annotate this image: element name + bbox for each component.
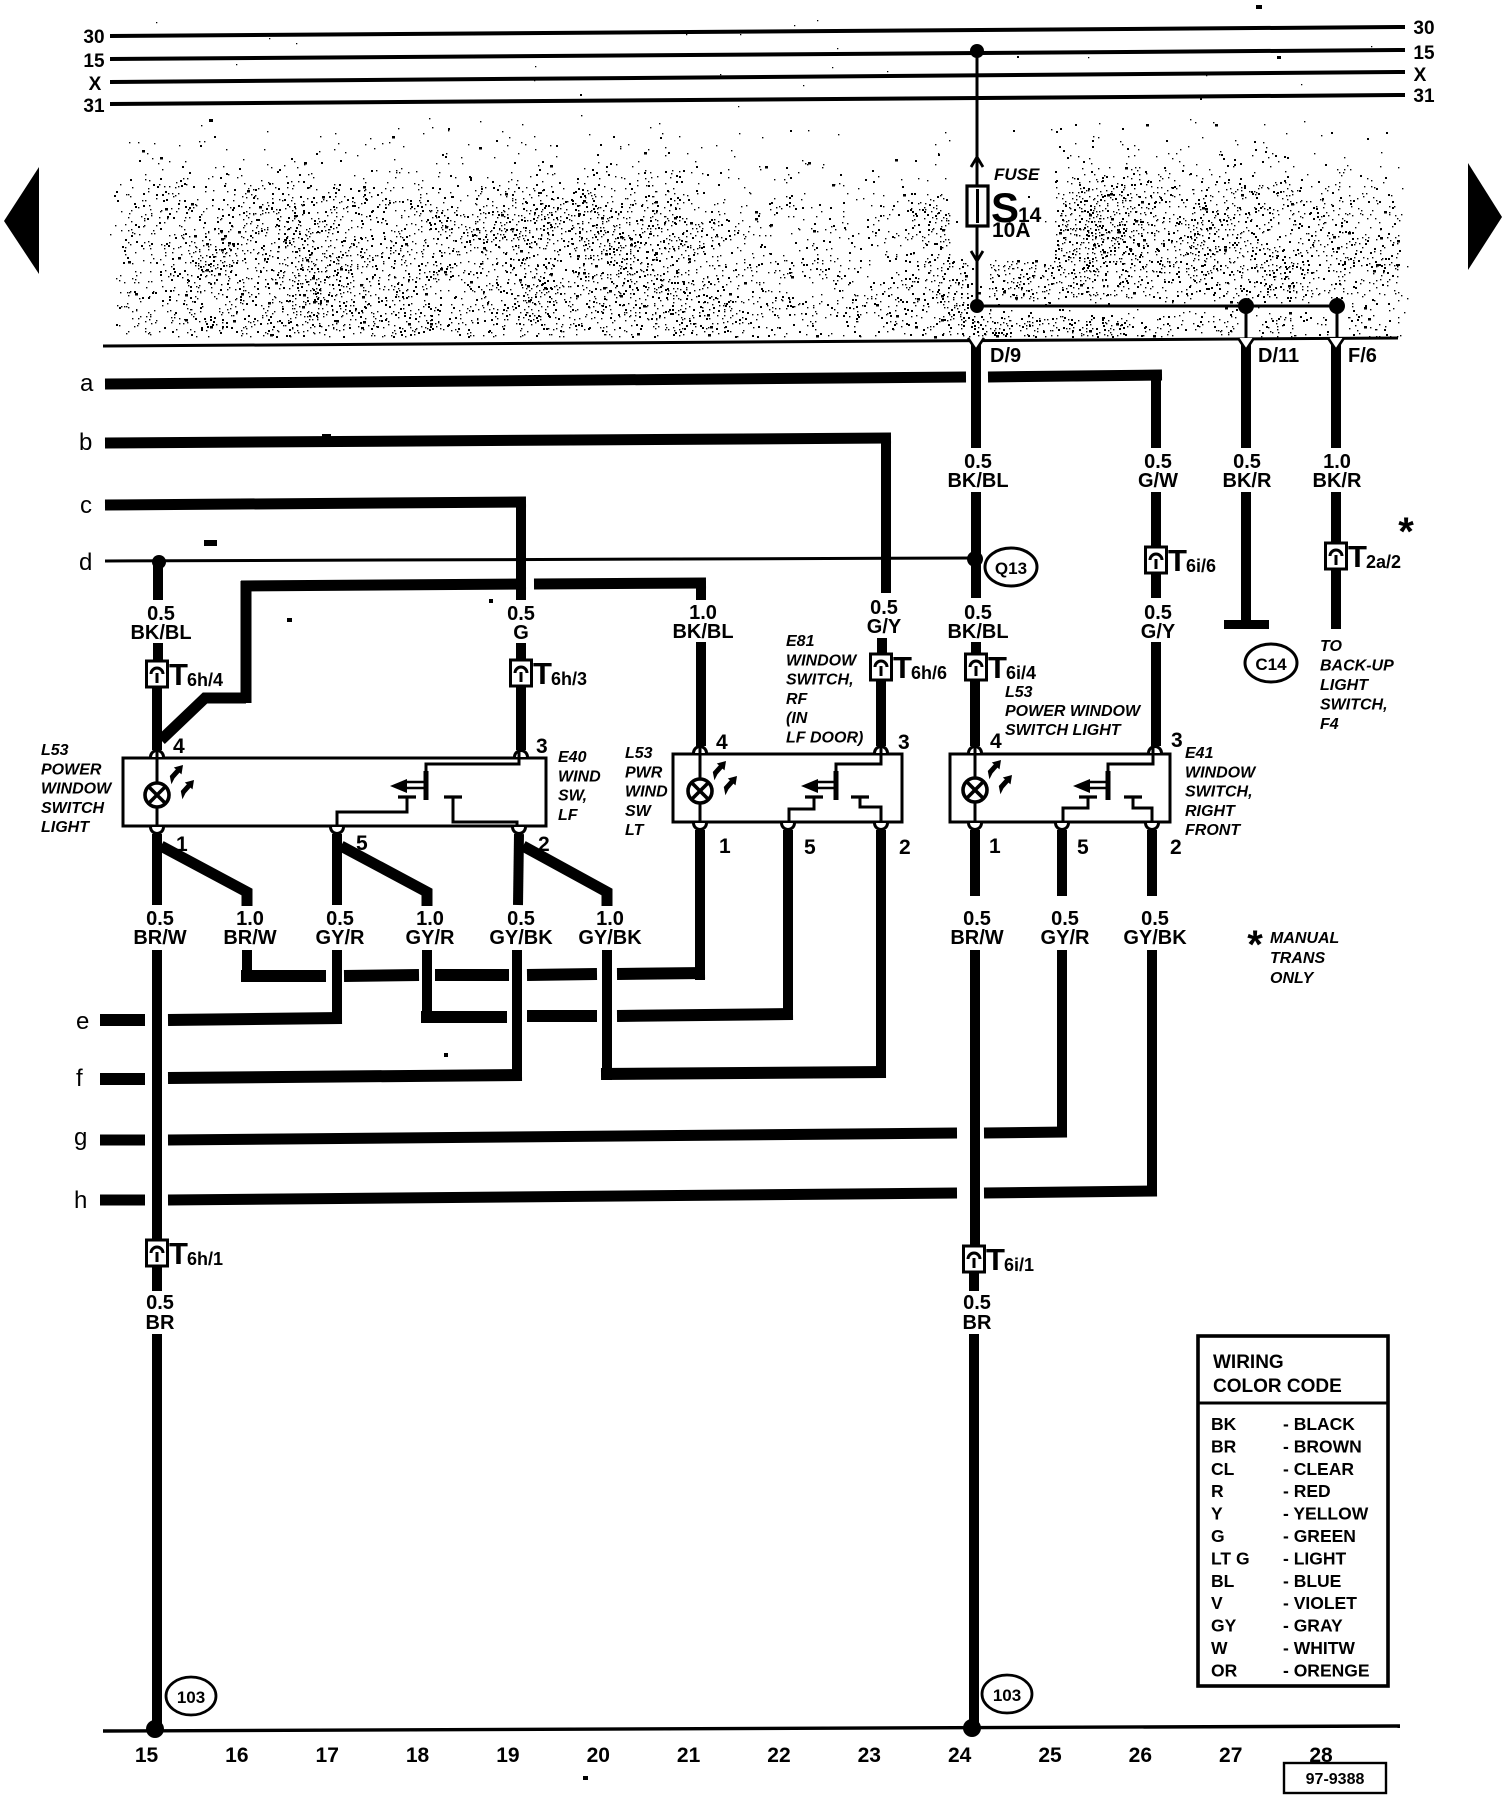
wire a [80,370,1162,397]
switch symbol E41 [1073,746,1153,800]
connector T6h/6 [871,650,948,685]
wire 0.5 GY/R col [332,950,342,1023]
svg-text:G/Y: G/Y [1141,621,1176,643]
connector T6h/1 [147,1236,224,1271]
label 0.5 BR left [146,1292,175,1334]
bottom rail [103,1726,1400,1731]
node Q13 [967,551,983,567]
svg-text:- RED: - RED [1283,1481,1331,1501]
label 0.5 GY/R right [1041,908,1090,949]
svg-text:5: 5 [804,836,816,859]
bus line 30 [83,18,1434,48]
svg-text:4: 4 [716,731,728,754]
wire below T2a/2 [1331,569,1341,629]
svg-text:- LIGHT: - LIGHT [1283,1548,1346,1568]
svg-text:TO: TO [1320,638,1342,655]
terminal E81 pin5 [782,823,817,859]
svg-text:GY/R: GY/R [1041,927,1090,949]
connector T2a/2 [1326,539,1402,574]
wire 1.0 BR/W col [242,950,252,981]
drawing number 97-9388 [1284,1763,1386,1793]
svg-text:c: c [80,492,92,519]
svg-text:*: * [1398,510,1414,554]
terminal E41 pin2 [1146,823,1182,859]
svg-text:16: 16 [225,1744,248,1767]
wire node to D11 F6 [977,305,1337,308]
svg-text:3: 3 [536,735,548,758]
wire E40 pin1 down [152,834,162,905]
wire drop F6 [1336,306,1339,341]
svg-text:0.5: 0.5 [963,1292,991,1314]
ellipse Q13 [985,548,1037,586]
wire D9 to d-node [971,492,981,560]
connector T6h/4 [147,657,224,692]
svg-text:R: R [1211,1481,1224,1501]
svg-text:WIRING: WIRING [1213,1352,1284,1373]
svg-text:D/9: D/9 [990,345,1021,367]
wire drop D11 [1245,306,1248,341]
arrow down from fuse [971,251,983,261]
svg-text:PWR: PWR [625,764,663,781]
label 0.5 G/Y right [1141,602,1176,643]
svg-text:RF: RF [786,691,809,708]
svg-text:SWITCH,: SWITCH, [1320,697,1388,714]
svg-text:6h/4: 6h/4 [187,670,223,690]
svg-text:SW: SW [625,803,653,820]
svg-text:6h/1: 6h/1 [187,1249,223,1269]
wire 1.0 GY/R col [422,950,432,1022]
node track24 [963,1719,981,1737]
contact E41 pin2 [1124,797,1152,826]
contact E81 pin2 [851,797,881,826]
svg-text:- BLUE: - BLUE [1283,1571,1341,1591]
svg-text:ONLY: ONLY [1270,970,1315,987]
svg-text:97-9388: 97-9388 [1306,1771,1365,1788]
wire to T6i/4 [971,642,981,656]
svg-text:X: X [89,74,102,95]
track numbers [135,1744,1333,1767]
label L53 power window switch light E41 [1005,684,1142,739]
fuse S14 [967,186,988,226]
wire b [79,429,891,456]
wire T6h/4 to E40 pin4 [152,687,162,750]
terminal E81 pin3 [875,731,910,754]
wire d-node to label [153,562,163,600]
svg-text:- CLEAR: - CLEAR [1283,1459,1354,1479]
svg-text:TRANS: TRANS [1270,950,1325,967]
ellipse 103 left [166,1677,216,1715]
wire E40 pin2 down [518,834,519,905]
lamp flashes E81 [713,761,737,795]
svg-text:27: 27 [1219,1744,1242,1767]
svg-text:BL: BL [1211,1571,1235,1591]
wire to track15 [152,1334,162,1727]
svg-text:T: T [1168,543,1187,578]
svg-text:SWITCH,: SWITCH, [1185,784,1253,801]
svg-text:b: b [79,429,92,456]
label 0.5 BK/R [1223,451,1272,492]
wire E41 pin2 stub [1147,830,1157,896]
branch diagonal from pin4 [161,698,246,740]
svg-text:18: 18 [406,1744,430,1767]
svg-text:22: 22 [767,1744,790,1767]
svg-text:5: 5 [1077,836,1089,859]
wire d-node down [971,559,981,598]
label 0.5 BK/BL lower [947,602,1008,643]
svg-text:FRONT: FRONT [1185,822,1241,839]
svg-text:T: T [988,650,1007,685]
svg-text:V: V [1211,1593,1223,1613]
svg-text:POWER WINDOW: POWER WINDOW [1005,703,1142,720]
label 1.0 GY/R [406,908,455,949]
arrow up to fuse [971,157,983,167]
svg-text:15: 15 [135,1744,159,1767]
wire G/Y to E41 pin3 [1151,642,1161,746]
wire 1.0 GY/BK col [602,950,612,1080]
svg-text:WIND: WIND [558,768,601,785]
svg-text:POWER: POWER [41,761,102,778]
svg-text:GY: GY [1211,1616,1237,1636]
svg-text:BACK-UP: BACK-UP [1320,658,1394,675]
svg-text:- YELLOW: - YELLOW [1283,1504,1369,1524]
wire c drop G [516,502,526,600]
svg-text:F4: F4 [1320,716,1339,733]
svg-text:- GRAY: - GRAY [1283,1616,1343,1636]
svg-text:C14: C14 [1255,655,1287,674]
svg-text:2a/2: 2a/2 [1366,552,1401,572]
svg-text:GY/R: GY/R [316,927,365,949]
svg-text:2: 2 [1170,836,1182,859]
label L53 pwr wind sw lt [625,745,668,839]
svg-text:- GREEN: - GREEN [1283,1526,1356,1546]
svg-text:BR: BR [963,1312,992,1334]
svg-text:L53: L53 [1005,684,1033,701]
svg-text:a: a [80,370,94,397]
node F6 top [1329,298,1345,314]
svg-text:BR: BR [146,1312,175,1334]
lamp L53 in E81 [688,746,712,826]
svg-text:0.5: 0.5 [146,1292,174,1314]
switch E81 box [673,754,902,822]
svg-text:E40: E40 [558,749,587,766]
label 0.5 GY/R left [316,908,365,949]
svg-text:SW,: SW, [558,788,587,805]
svg-text:LF DOOR): LF DOOR) [786,730,863,747]
label 0.5 BR/W left [133,908,186,949]
svg-text:BK/BL: BK/BL [947,470,1008,492]
branch pin5 diagonal [341,846,427,906]
svg-text:30: 30 [83,27,104,48]
svg-text:4: 4 [173,735,185,758]
label E81 window switch rf [786,633,863,747]
svg-text:L53: L53 [625,745,653,762]
svg-text:21: 21 [677,1744,701,1767]
connector T6h/3 [511,656,588,691]
terminal E41 pin1 [969,823,1002,858]
branch riser [241,581,252,703]
wire D/11 [1238,338,1299,621]
svg-text:Y: Y [1211,1504,1223,1524]
wire E41 pin5 col [1057,950,1067,1136]
label L53 power window switch light [41,742,113,836]
bus line 15 [83,43,1435,72]
svg-text:- VIOLET: - VIOLET [1283,1593,1357,1613]
switch E41 box [950,754,1170,822]
label 1.0 BR/W [223,908,276,949]
svg-text:BK: BK [1211,1414,1237,1434]
svg-text:G: G [513,622,529,644]
svg-text:BK/R: BK/R [1223,470,1272,492]
terminal E81 pin1 [694,823,732,858]
terminal E40 pin4 [151,735,186,758]
fuse label [991,165,1042,242]
svg-text:1: 1 [989,835,1001,858]
wire f [76,1065,886,1092]
svg-text:E41: E41 [1185,745,1214,762]
wire T6h/6 to E81 pin3 [876,680,886,746]
lamp L53 in E41 [963,746,987,826]
lamp L53 in E40 [145,750,169,830]
label 1.0 BK/BL [672,602,733,643]
svg-text:31: 31 [83,96,105,117]
svg-text:BK/R: BK/R [1313,470,1362,492]
svg-text:T: T [533,656,552,691]
wire T6h/3 to E40 pin3 [516,686,526,750]
svg-text:LF: LF [558,807,579,824]
wire D/9 [968,338,1021,448]
star manual trans [1398,510,1414,554]
wire b drop G/Y [881,438,891,593]
wire E81 pin2 down [876,830,886,1078]
label E40 wind sw lf [558,749,601,824]
svg-text:BR: BR [1211,1436,1237,1456]
svg-text:L53: L53 [41,742,69,759]
terminal E40 pin3 [515,735,548,758]
wire E81 pin1 down [695,830,705,980]
connector T6i/1 [964,1242,1035,1277]
wire g [74,1124,1067,1151]
svg-text:GY/BK: GY/BK [1123,927,1187,949]
bus line X [89,65,1427,95]
svg-text:25: 25 [1038,1744,1062,1767]
svg-text:G: G [1211,1526,1225,1546]
svg-text:15: 15 [1413,43,1435,64]
page arrow right [1468,163,1502,270]
label 0.5 BK/BL upper [947,451,1008,492]
wire T6i/4 to E41 pin4 [970,680,980,746]
label 0.5 GY/BK left [489,908,553,949]
bus line 31 [83,86,1435,117]
svg-text:15: 15 [83,51,105,72]
svg-text:OR: OR [1211,1660,1238,1680]
node D9 top [970,299,984,313]
wire G/W to T6i/6 [1151,492,1161,549]
label 0.5 G [507,603,535,644]
wire e [76,1008,793,1035]
svg-text:*: * [1247,923,1263,967]
svg-text:LIGHT: LIGHT [1320,677,1369,694]
svg-text:SWITCH,: SWITCH, [786,672,854,689]
svg-text:T: T [986,1242,1005,1277]
wire 0.5 GY/BK col [512,950,522,1081]
svg-text:SWITCH LIGHT: SWITCH LIGHT [1005,722,1122,739]
wire E40 pin5 down [332,834,342,905]
svg-text:T: T [169,657,188,692]
wire to E81 pin4 [696,642,706,746]
svg-text:BR/W: BR/W [950,927,1003,949]
svg-text:3: 3 [1171,729,1183,752]
label 0.5 BR/W right [950,908,1003,949]
wire to T6h/3 [516,643,526,662]
svg-text:e: e [76,1008,89,1035]
svg-text:6h/6: 6h/6 [911,663,947,683]
wire E41 pin5 stub [1057,830,1067,896]
svg-text:GY/BK: GY/BK [578,927,642,949]
svg-text:3: 3 [898,731,910,754]
contact E40 pin5 [337,797,416,830]
svg-text:BK/BL: BK/BL [130,622,191,644]
lamp flashes E40 [170,765,194,799]
wire E81 pin5 down [783,830,793,1020]
star note [1247,923,1339,987]
end bar D/11 [1224,620,1269,629]
svg-text:f: f [76,1065,83,1092]
svg-text:31: 31 [1413,86,1435,107]
node track15 [146,1720,164,1738]
page arrow left [4,167,39,274]
svg-text:26: 26 [1129,1744,1152,1767]
svg-text:X: X [1414,65,1427,86]
contact E40 pin2 [444,797,517,830]
label E41 window switch right front [1185,745,1257,839]
svg-text:GY/BK: GY/BK [489,927,553,949]
wire T6i/6 down [1151,573,1161,598]
terminal E40 pin1 [151,827,189,856]
svg-text:WIND: WIND [625,784,668,801]
svg-text:19: 19 [496,1744,519,1767]
svg-text:LT: LT [625,822,645,839]
svg-text:g: g [74,1124,87,1151]
svg-text:6i/1: 6i/1 [1004,1255,1034,1275]
svg-text:GY/R: GY/R [406,927,455,949]
branch drop 1.0 BK/BL [696,583,706,600]
svg-text:G/Y: G/Y [867,616,902,638]
connector T6i/6 [1146,543,1217,578]
svg-text:(IN: (IN [786,710,808,727]
label 0.5 GY/BK right [1123,908,1187,949]
terminal E41 pin4 [969,730,1003,753]
branch bar [241,583,706,586]
ellipse C14 [1245,644,1297,682]
label 0.5 G/Y mid [867,597,902,638]
svg-text:103: 103 [993,1686,1021,1705]
svg-text:2: 2 [899,836,911,859]
svg-text:F/6: F/6 [1348,345,1377,367]
bus rail [103,338,1398,346]
svg-text:17: 17 [316,1744,339,1767]
branch pin2 diagonal [523,846,607,906]
terminal E41 pin5 [1056,823,1090,859]
terminal E81 pin2 [875,823,911,859]
branch pin1 diagonal [161,846,247,906]
wire fuse to node [976,226,979,306]
svg-text:BK/BL: BK/BL [672,621,733,643]
svg-text:- WHITW: - WHITW [1283,1638,1355,1658]
wire to track24 [969,1334,979,1726]
connector T6i/4 [966,650,1037,685]
label 1.0 BK/R [1313,451,1362,492]
svg-text:RIGHT: RIGHT [1185,803,1236,820]
label 1.0 GY/BK [578,908,642,949]
svg-text:W: W [1211,1638,1228,1658]
svg-text:24: 24 [948,1744,972,1767]
switch symbol E40 [390,750,519,800]
legend wiring color code [1198,1336,1388,1686]
svg-text:- BROWN: - BROWN [1283,1436,1362,1456]
svg-text:BR/W: BR/W [223,927,276,949]
svg-text:LIGHT: LIGHT [41,819,90,836]
junction on bus 15 [970,44,984,58]
svg-text:SWITCH: SWITCH [41,800,105,817]
svg-text:WINDOW: WINDOW [41,781,113,798]
wire a drop G/W [1151,375,1161,448]
svg-text:MANUAL: MANUAL [1270,930,1339,947]
wire h [74,1187,1157,1214]
svg-text:4: 4 [990,730,1002,753]
wire E41 pin1 col [970,950,980,1246]
wire c [80,492,526,519]
svg-text:23: 23 [858,1744,881,1767]
svg-text:LT G: LT G [1211,1548,1250,1568]
svg-text:- ORENGE: - ORENGE [1283,1660,1370,1680]
wire T6h/1 down [152,1266,162,1291]
wire 0.5 BR/W col [152,950,162,1240]
switch E40 box [123,758,546,826]
svg-text:BR/W: BR/W [133,927,186,949]
terminal E40 pin5 [331,827,369,855]
switch symbol E81 [801,746,881,800]
svg-text:6i/4: 6i/4 [1006,663,1036,683]
contact E41 pin5 [1063,797,1097,826]
svg-text:FUSE: FUSE [994,165,1040,184]
svg-text:103: 103 [177,1688,205,1707]
wire E41 pin2 col [1147,950,1157,1196]
wire to T6h/4 [153,643,163,663]
svg-text:WINDOW: WINDOW [786,652,858,669]
label 0.5 G/W [1138,451,1178,492]
terminal E81 pin4 [694,731,729,754]
svg-text:T: T [1348,539,1367,574]
wire to T6h/6 [877,638,887,656]
node d left [152,555,166,569]
svg-text:D/11: D/11 [1258,345,1299,367]
note to backup switch [1320,638,1394,733]
svg-text:E81: E81 [786,633,815,650]
label 0.5 BK/BL left [130,603,191,644]
svg-text:Q13: Q13 [995,559,1027,578]
svg-text:- BLACK: - BLACK [1283,1414,1355,1434]
svg-text:d: d [79,549,92,576]
wire E41 pin1 stub [970,830,980,896]
svg-text:6h/3: 6h/3 [551,669,587,689]
terminal E40 pin2 [513,827,550,856]
svg-text:CL: CL [1211,1459,1235,1479]
lamp flashes E41 [988,760,1012,794]
svg-text:10A: 10A [992,219,1031,242]
terminal E41 pin3 [1149,729,1183,753]
wire row BR/W [241,973,705,976]
wire d [79,549,975,576]
